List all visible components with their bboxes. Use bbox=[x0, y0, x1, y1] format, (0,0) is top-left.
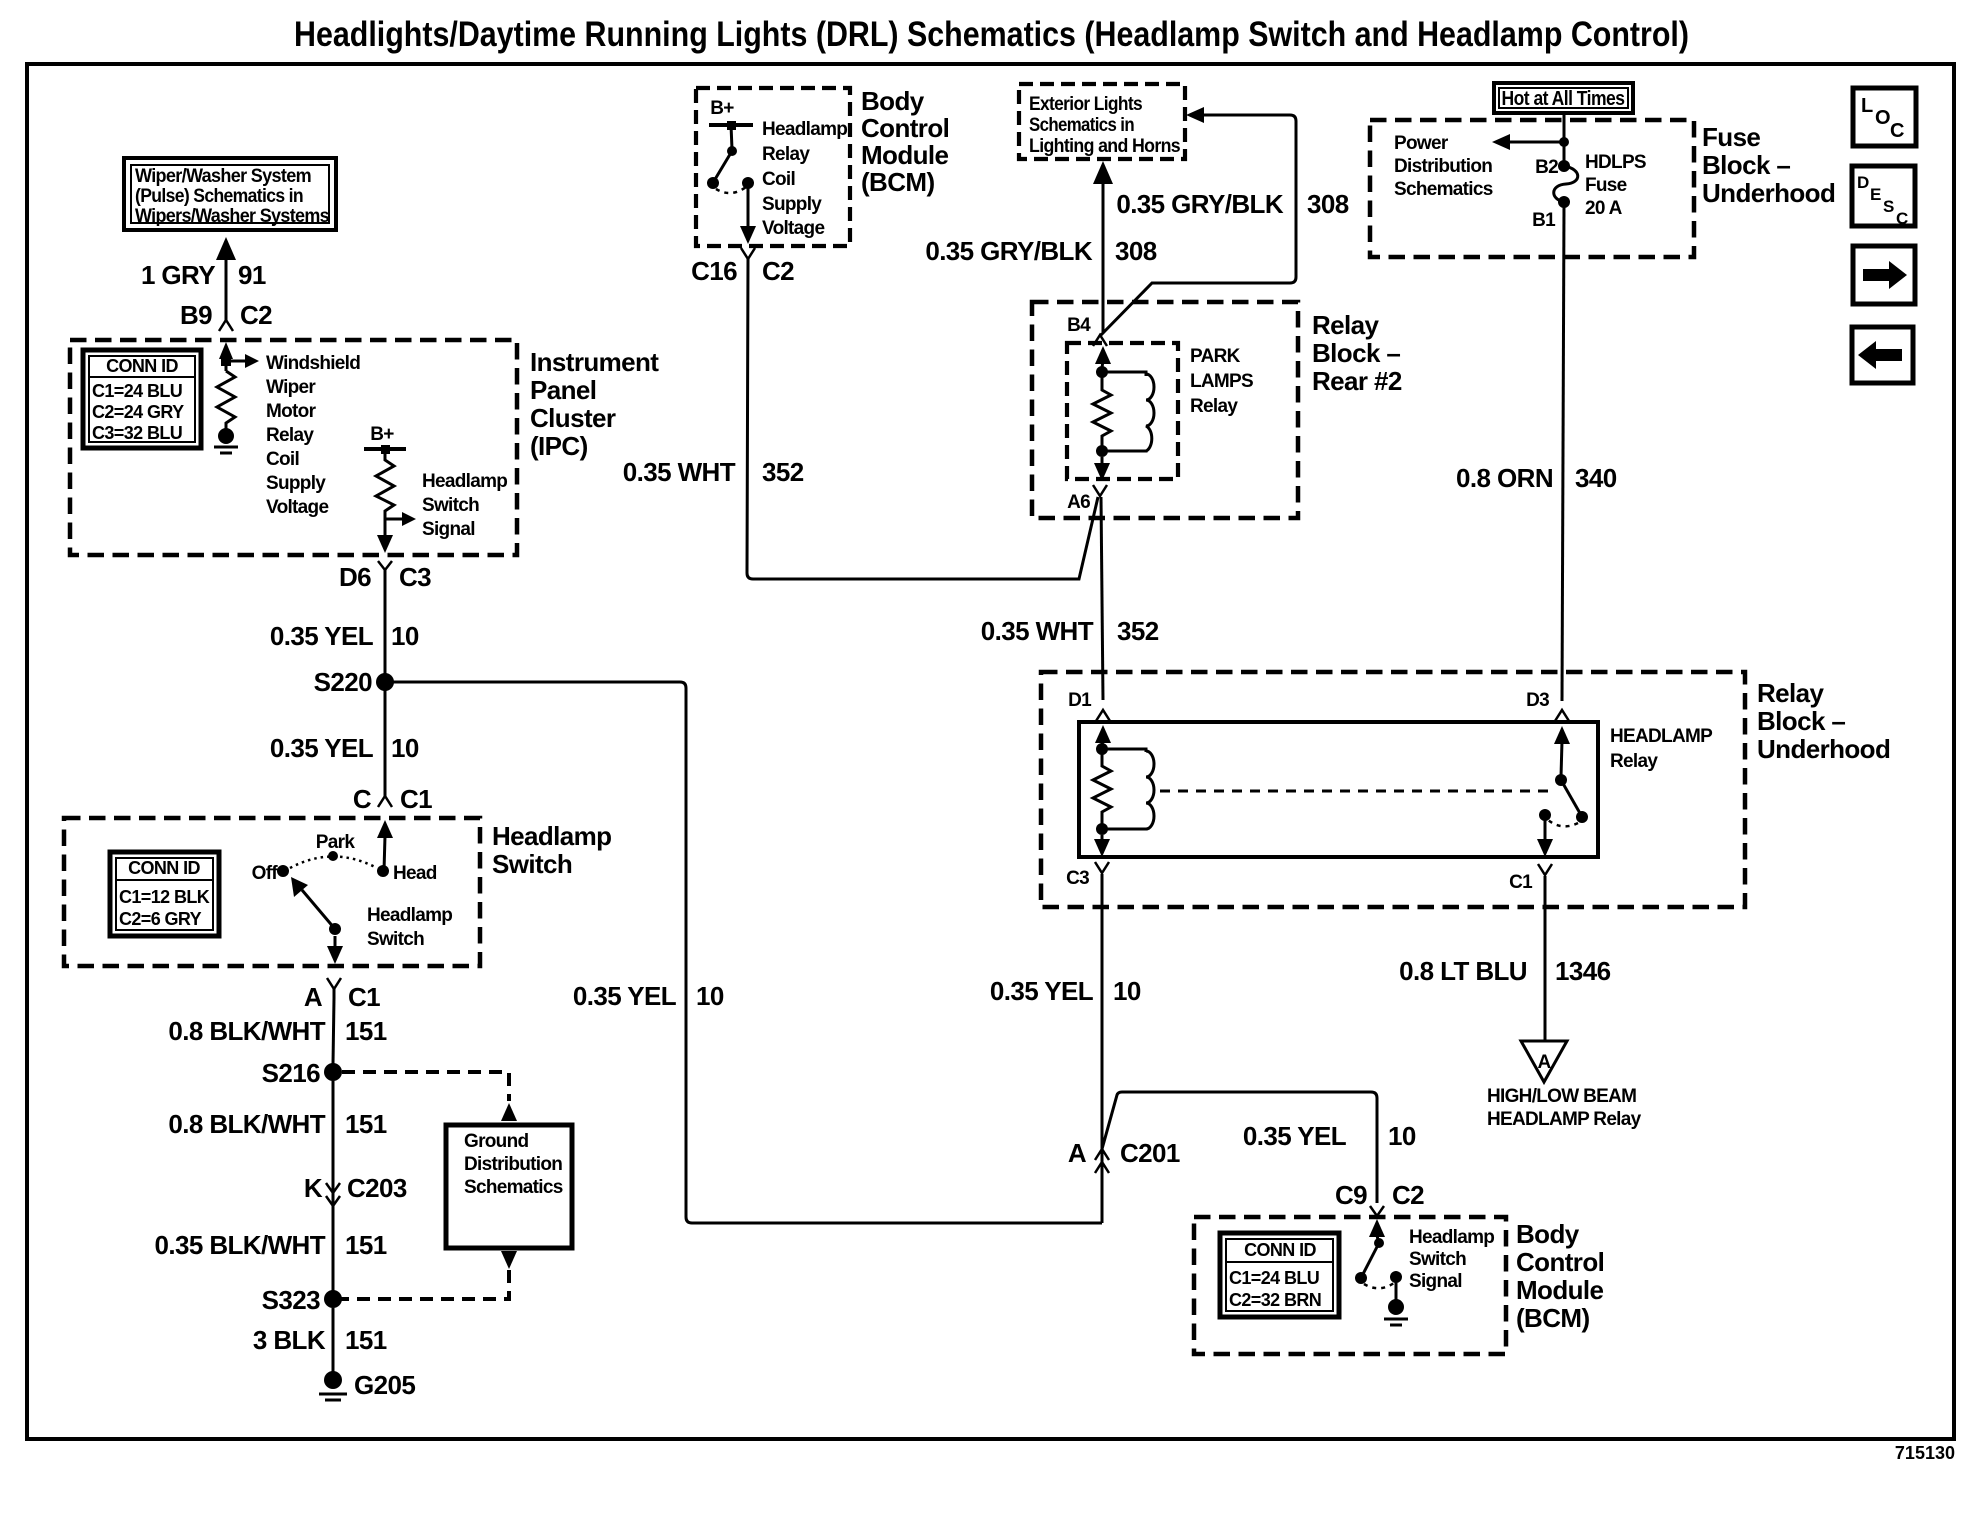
svg-text:(Pulse) Schematics in: (Pulse) Schematics in bbox=[135, 186, 303, 207]
svg-text:Coil: Coil bbox=[762, 169, 795, 190]
svg-text:Body: Body bbox=[1516, 1219, 1580, 1249]
Instrument Panel Cluster dashed box bbox=[70, 340, 517, 555]
svg-text:C16: C16 bbox=[691, 256, 737, 286]
svg-text:C1=24 BLU: C1=24 BLU bbox=[1229, 1268, 1319, 1288]
svg-text:Underhood: Underhood bbox=[1757, 734, 1890, 764]
svg-text:C1: C1 bbox=[400, 784, 432, 814]
svg-text:10: 10 bbox=[1388, 1121, 1416, 1151]
dashed wire S216 to Ground Distribution box bbox=[342, 1072, 517, 1121]
svg-text:Wiper: Wiper bbox=[266, 377, 316, 398]
svg-text:151: 151 bbox=[345, 1016, 387, 1046]
svg-text:C3: C3 bbox=[399, 562, 431, 592]
resistor headlamp switch signal (IPC) bbox=[376, 449, 416, 553]
svg-text:Power: Power bbox=[1394, 133, 1449, 154]
label 0.35 GRY/BLK 308 (upper right) bbox=[1116, 189, 1348, 219]
svg-text:Headlights/Daytime Running Lig: Headlights/Daytime Running Lights (DRL) … bbox=[294, 15, 1689, 54]
svg-text:Voltage: Voltage bbox=[762, 218, 824, 239]
svg-text:Supply: Supply bbox=[266, 473, 326, 494]
relay actuation dashed line bbox=[1160, 790, 1556, 793]
svg-text:1346: 1346 bbox=[1555, 956, 1611, 986]
park lamps relay coil assembly bbox=[1093, 346, 1154, 481]
BCM top label bbox=[861, 86, 949, 197]
svg-text:Headlamp: Headlamp bbox=[762, 119, 847, 140]
connector B4 bbox=[1067, 315, 1107, 346]
label 3 BLK 151 bbox=[253, 1325, 387, 1355]
CONN ID box (headlamp switch) bbox=[110, 852, 219, 936]
Body Control Module dashed box (bottom) bbox=[1194, 1217, 1506, 1354]
wire armature down and out of box bbox=[327, 936, 343, 964]
svg-text:CONN ID: CONN ID bbox=[128, 858, 200, 878]
svg-text:D: D bbox=[1857, 173, 1869, 192]
svg-text:Underhood: Underhood bbox=[1702, 178, 1835, 208]
svg-text:Panel: Panel bbox=[530, 375, 596, 405]
label 0.35 WHT 352 (middle) bbox=[981, 616, 1159, 646]
svg-text:B+: B+ bbox=[710, 98, 734, 119]
PARK LAMPS relay label bbox=[1190, 346, 1253, 417]
button LOC bbox=[1853, 88, 1916, 146]
svg-text:LAMPS: LAMPS bbox=[1190, 371, 1253, 392]
svg-text:Distribution: Distribution bbox=[464, 1154, 562, 1175]
label 0.35 YEL 10 (upper) bbox=[270, 621, 419, 651]
wire C16 down right and diagonal to A6 bbox=[747, 258, 1098, 579]
svg-text:308: 308 bbox=[1307, 189, 1349, 219]
svg-text:CONN ID: CONN ID bbox=[106, 356, 178, 376]
BCM bottom label bbox=[1516, 1219, 1604, 1333]
connector C16 C2 bbox=[691, 248, 794, 286]
svg-text:(BCM): (BCM) bbox=[861, 167, 935, 197]
svg-text:151: 151 bbox=[345, 1230, 387, 1260]
label 0.8 ORN 340 bbox=[1456, 463, 1617, 493]
svg-text:D1: D1 bbox=[1068, 690, 1092, 711]
svg-text:C3=32 BLU: C3=32 BLU bbox=[92, 423, 182, 443]
CONN ID box (BCM) bbox=[1220, 1233, 1339, 1317]
connector K C203 bbox=[304, 1173, 407, 1206]
arrow to Power Distribution bbox=[1492, 134, 1569, 150]
svg-text:Schematics: Schematics bbox=[1394, 179, 1493, 200]
svg-text:Headlamp: Headlamp bbox=[1409, 1227, 1494, 1248]
CONN ID box (IPC) bbox=[83, 350, 201, 448]
svg-text:Switch: Switch bbox=[1409, 1249, 1466, 1270]
label 0.8 BLK/WHT 151 (second) bbox=[168, 1109, 386, 1139]
Relay Block Underhood dashed box bbox=[1041, 672, 1745, 907]
wire from Hot at All Times down bbox=[1563, 113, 1566, 163]
svg-text:HIGH/LOW BEAM: HIGH/LOW BEAM bbox=[1487, 1086, 1636, 1107]
Fuse Block label bbox=[1702, 122, 1835, 208]
svg-text:G205: G205 bbox=[354, 1370, 415, 1400]
svg-text:0.35 YEL: 0.35 YEL bbox=[1243, 1121, 1347, 1151]
svg-text:Fuse: Fuse bbox=[1702, 122, 1760, 152]
svg-text:10: 10 bbox=[391, 733, 419, 763]
svg-text:715130: 715130 bbox=[1895, 1443, 1955, 1463]
svg-text:0.35 WHT: 0.35 WHT bbox=[623, 457, 736, 487]
BCM headlamp switch signal input bbox=[1355, 1219, 1408, 1325]
svg-text:Motor: Motor bbox=[266, 401, 317, 422]
svg-text:C9: C9 bbox=[1335, 1180, 1367, 1210]
svg-text:A: A bbox=[1068, 1138, 1087, 1168]
label 0.35 WHT 352 (left) bbox=[623, 457, 804, 487]
connector D3 bbox=[1526, 690, 1569, 721]
svg-text:Relay: Relay bbox=[266, 425, 314, 446]
svg-text:K: K bbox=[304, 1173, 323, 1203]
svg-text:C1=24 BLU: C1=24 BLU bbox=[92, 381, 182, 401]
svg-text:20 A: 20 A bbox=[1585, 198, 1623, 219]
svg-text:Switch: Switch bbox=[367, 929, 424, 950]
label Headlamp Switch Signal (IPC) bbox=[422, 471, 507, 540]
wire A6 down to D1 bbox=[1101, 497, 1103, 700]
svg-text:HDLPS: HDLPS bbox=[1585, 152, 1646, 173]
svg-text:0.35 YEL: 0.35 YEL bbox=[990, 976, 1094, 1006]
svg-text:151: 151 bbox=[345, 1109, 387, 1139]
reference box Wiper/Washer System bbox=[124, 158, 336, 230]
connector B9 C2 bbox=[180, 300, 272, 331]
wire B1 down to D3 bbox=[1562, 205, 1564, 701]
wire S216 to S323 bbox=[332, 1081, 335, 1291]
wire S323 to G205 bbox=[332, 1308, 335, 1374]
Relay Block Rear #2 dashed box bbox=[1032, 302, 1298, 518]
connector C C1 bbox=[353, 784, 432, 814]
wire C3 down to C201 bbox=[1101, 874, 1104, 1223]
svg-text:0.35 GRY/BLK: 0.35 GRY/BLK bbox=[925, 236, 1092, 266]
svg-text:Relay: Relay bbox=[1190, 396, 1238, 417]
svg-text:Hot at All Times: Hot at All Times bbox=[1502, 88, 1625, 110]
wire S220 branch right and down to C201 bbox=[392, 682, 1102, 1223]
svg-text:Relay: Relay bbox=[1312, 310, 1380, 340]
connector A6 bbox=[1067, 485, 1107, 513]
wire C1 into box with up arrow to Head bbox=[377, 820, 393, 871]
svg-text:Cluster: Cluster bbox=[530, 403, 616, 433]
svg-text:Exterior Lights: Exterior Lights bbox=[1029, 94, 1142, 115]
BCM headlamp relay driver switch bbox=[707, 125, 754, 193]
splice S323 bbox=[262, 1285, 342, 1315]
Headlamp Switch dashed box bbox=[64, 818, 480, 966]
svg-text:Relay: Relay bbox=[762, 144, 810, 165]
connector D1 bbox=[1068, 690, 1110, 721]
label 0.35 YEL 10 (to C9) bbox=[1243, 1121, 1416, 1151]
svg-text:Rear #2: Rear #2 bbox=[1312, 366, 1402, 396]
splice S216 bbox=[262, 1058, 342, 1088]
connector C9 C2 bbox=[1335, 1180, 1424, 1216]
svg-text:L: L bbox=[1861, 95, 1873, 117]
svg-text:Switch: Switch bbox=[492, 849, 572, 879]
reference box Exterior Lights dashed bbox=[1019, 84, 1185, 159]
wire to Wiper/Washer box with up arrow bbox=[216, 237, 236, 313]
reference box Ground Distribution Schematics bbox=[446, 1125, 572, 1248]
label 0.35 GRY/BLK 308 (left) bbox=[925, 236, 1156, 266]
svg-text:HEADLAMP Relay: HEADLAMP Relay bbox=[1487, 1109, 1642, 1130]
svg-text:D6: D6 bbox=[339, 562, 371, 592]
svg-text:0.8 BLK/WHT: 0.8 BLK/WHT bbox=[168, 1109, 325, 1139]
svg-text:1 GRY: 1 GRY bbox=[141, 260, 215, 290]
svg-text:Relay: Relay bbox=[1757, 678, 1825, 708]
svg-text:D3: D3 bbox=[1526, 690, 1549, 711]
svg-text:O: O bbox=[1875, 107, 1890, 129]
label Power Distribution Schematics bbox=[1394, 133, 1493, 200]
svg-text:Schematics: Schematics bbox=[464, 1177, 563, 1198]
svg-text:B2: B2 bbox=[1535, 157, 1558, 178]
svg-text:B+: B+ bbox=[370, 424, 394, 445]
svg-text:C2=24 GRY: C2=24 GRY bbox=[92, 402, 184, 422]
svg-text:B9: B9 bbox=[180, 300, 212, 330]
svg-text:C2=32 BRN: C2=32 BRN bbox=[1229, 1290, 1321, 1310]
label 0.35 YEL 10 (relay to C201) bbox=[990, 976, 1141, 1006]
label 0.8 LT BLU 1346 bbox=[1399, 956, 1610, 986]
svg-text:308: 308 bbox=[1115, 236, 1157, 266]
svg-text:A6: A6 bbox=[1067, 492, 1090, 513]
circuit reference triangle A bbox=[1521, 1041, 1567, 1082]
svg-text:3 BLK: 3 BLK bbox=[253, 1325, 326, 1355]
svg-text:91: 91 bbox=[238, 260, 266, 290]
svg-text:Body: Body bbox=[861, 86, 925, 116]
svg-text:0.8 BLK/WHT: 0.8 BLK/WHT bbox=[168, 1016, 325, 1046]
Relay Block Rear #2 label bbox=[1312, 310, 1402, 396]
svg-text:C201: C201 bbox=[1120, 1138, 1180, 1168]
svg-text:352: 352 bbox=[1117, 616, 1159, 646]
connector D6 C3 bbox=[339, 561, 431, 592]
svg-text:Wipers/Washer Systems: Wipers/Washer Systems bbox=[135, 206, 329, 227]
svg-text:Control: Control bbox=[1516, 1247, 1604, 1277]
svg-text:0.35 GRY/BLK: 0.35 GRY/BLK bbox=[1116, 189, 1283, 219]
connector C1 (relay block) bbox=[1509, 864, 1552, 893]
svg-text:B1: B1 bbox=[1532, 210, 1556, 231]
label Headlamp Switch Signal (BCM) bbox=[1409, 1227, 1494, 1292]
svg-text:151: 151 bbox=[345, 1325, 387, 1355]
HEADLAMP Relay label bbox=[1610, 726, 1713, 772]
svg-text:Off: Off bbox=[252, 863, 279, 884]
wire BCM out to C16 with down arrow bbox=[740, 183, 756, 244]
svg-text:0.35 YEL: 0.35 YEL bbox=[573, 981, 677, 1011]
svg-text:0.8 LT BLU: 0.8 LT BLU bbox=[1399, 956, 1527, 986]
wire D6 to S220 bbox=[384, 569, 387, 674]
svg-text:Relay: Relay bbox=[1610, 751, 1658, 772]
svg-text:C1=12 BLK: C1=12 BLK bbox=[119, 887, 210, 907]
svg-text:C: C bbox=[353, 784, 372, 814]
button arrow right bbox=[1853, 246, 1915, 304]
label 0.8 BLK/WHT 151 (first) bbox=[168, 1016, 386, 1046]
reference box Hot at All Times bbox=[1494, 83, 1633, 113]
svg-text:Schematics in: Schematics in bbox=[1029, 115, 1134, 136]
svg-text:C3: C3 bbox=[1066, 868, 1089, 889]
connector A C1 (headlamp switch) bbox=[304, 978, 380, 1012]
fuse HDLPS 20A bbox=[1532, 157, 1578, 231]
svg-text:Instrument: Instrument bbox=[530, 347, 659, 377]
svg-text:10: 10 bbox=[1113, 976, 1141, 1006]
svg-text:Head: Head bbox=[393, 863, 437, 884]
Headlamp Switch outside label bbox=[492, 821, 611, 879]
svg-text:CONN ID: CONN ID bbox=[1244, 1240, 1316, 1260]
Fuse Block Underhood dashed box bbox=[1370, 120, 1694, 257]
svg-text:Block –: Block – bbox=[1757, 706, 1845, 736]
svg-text:Wiper/Washer System: Wiper/Washer System bbox=[135, 166, 311, 187]
svg-text:(IPC): (IPC) bbox=[530, 431, 588, 461]
svg-text:Headlamp: Headlamp bbox=[367, 905, 452, 926]
svg-text:0.35 YEL: 0.35 YEL bbox=[270, 733, 374, 763]
svg-text:A: A bbox=[1537, 1052, 1551, 1073]
svg-text:C203: C203 bbox=[347, 1173, 407, 1203]
svg-text:PARK: PARK bbox=[1190, 346, 1241, 367]
svg-text:(BCM): (BCM) bbox=[1516, 1303, 1590, 1333]
label Windshield Wiper Motor Relay Coil Supply Voltage bbox=[266, 353, 360, 518]
label HIGH/LOW BEAM HEADLAMP Relay bbox=[1487, 1086, 1642, 1130]
svg-text:Signal: Signal bbox=[422, 519, 475, 540]
svg-text:C1: C1 bbox=[1509, 872, 1533, 893]
label 0.35 YEL 10 (lower) bbox=[270, 733, 419, 763]
headlamp switch armature bbox=[291, 877, 341, 935]
svg-text:Signal: Signal bbox=[1409, 1271, 1462, 1292]
svg-text:S220: S220 bbox=[314, 667, 372, 697]
headlamp relay coil assembly bbox=[1093, 725, 1154, 857]
svg-text:Fuse: Fuse bbox=[1585, 175, 1627, 196]
label 0.35 BLK/WHT 151 bbox=[155, 1230, 387, 1260]
svg-text:Ground: Ground bbox=[464, 1131, 528, 1152]
svg-text:352: 352 bbox=[762, 457, 804, 487]
svg-text:C: C bbox=[1896, 209, 1908, 228]
wire A to S216 bbox=[333, 998, 334, 1064]
svg-text:0.8 ORN: 0.8 ORN bbox=[1456, 463, 1553, 493]
svg-text:Module: Module bbox=[1516, 1275, 1604, 1305]
svg-text:Headlamp: Headlamp bbox=[422, 471, 507, 492]
svg-text:Module: Module bbox=[861, 140, 949, 170]
wire S220 down to C bbox=[384, 690, 387, 790]
svg-text:C2: C2 bbox=[762, 256, 794, 286]
svg-text:10: 10 bbox=[696, 981, 724, 1011]
button DESC bbox=[1852, 166, 1915, 228]
svg-text:Block –: Block – bbox=[1702, 150, 1790, 180]
headlamp switch internal label bbox=[367, 905, 452, 950]
PARK LAMPS relay dashed box bbox=[1067, 343, 1178, 479]
svg-text:Coil: Coil bbox=[266, 449, 299, 470]
svg-text:10: 10 bbox=[391, 621, 419, 651]
HEADLAMP relay solid box bbox=[1079, 722, 1598, 857]
svg-text:A: A bbox=[304, 982, 323, 1012]
svg-text:HEADLAMP: HEADLAMP bbox=[1610, 726, 1713, 747]
svg-text:0.35 WHT: 0.35 WHT bbox=[981, 616, 1094, 646]
svg-text:Distribution: Distribution bbox=[1394, 156, 1492, 177]
svg-text:Block –: Block – bbox=[1312, 338, 1400, 368]
button arrow left bbox=[1852, 327, 1913, 383]
ground G205 bbox=[319, 1370, 415, 1400]
headlamp switch contacts Off Park Head bbox=[252, 832, 437, 884]
svg-text:Park: Park bbox=[316, 832, 356, 853]
label Headlamp Relay Coil Supply Voltage (BCM) bbox=[762, 119, 847, 239]
svg-text:Supply: Supply bbox=[762, 194, 822, 215]
svg-text:0.35 YEL: 0.35 YEL bbox=[270, 621, 374, 651]
svg-text:C: C bbox=[1890, 120, 1904, 142]
svg-text:Headlamp: Headlamp bbox=[492, 821, 611, 851]
node B+ (BCM) bbox=[709, 98, 753, 130]
headlamp relay switch bbox=[1537, 726, 1588, 857]
svg-text:Switch: Switch bbox=[422, 495, 479, 516]
Relay Block Underhood label bbox=[1757, 678, 1890, 764]
label 0.35 YEL 10 (S220 branch) bbox=[573, 981, 724, 1011]
svg-text:C2: C2 bbox=[1392, 1180, 1424, 1210]
svg-text:Lighting and Horns: Lighting and Horns bbox=[1029, 136, 1180, 157]
connector C3 bbox=[1066, 862, 1109, 889]
svg-text:C2: C2 bbox=[240, 300, 272, 330]
label HDLPS Fuse 20 A bbox=[1585, 152, 1646, 219]
IPC label bbox=[530, 347, 659, 461]
wire from Exterior Lights box right via elbow to B4 bbox=[1101, 107, 1296, 335]
svg-text:340: 340 bbox=[1575, 463, 1617, 493]
svg-text:E: E bbox=[1870, 185, 1881, 204]
wire C1 down to high/low beam triangle bbox=[1544, 876, 1547, 1040]
svg-text:S: S bbox=[1883, 197, 1894, 216]
label 1 GRY 91 bbox=[141, 260, 266, 290]
wire C201 up elbow to C9 bbox=[1102, 1092, 1377, 1203]
svg-text:S323: S323 bbox=[262, 1285, 320, 1315]
svg-text:Control: Control bbox=[861, 113, 949, 143]
svg-text:C2=6 GRY: C2=6 GRY bbox=[119, 909, 202, 929]
svg-text:Windshield: Windshield bbox=[266, 353, 360, 374]
Body Control Module dashed box (top) bbox=[696, 88, 850, 246]
svg-text:B4: B4 bbox=[1067, 315, 1091, 336]
wire B4 up into Exterior Lights box bbox=[1093, 161, 1113, 332]
resistor wiper motor relay coil (IPC) bbox=[214, 342, 259, 453]
svg-text:Voltage: Voltage bbox=[266, 497, 328, 518]
node B+ (IPC headlamp switch signal) bbox=[364, 424, 406, 454]
svg-text:C1: C1 bbox=[348, 982, 380, 1012]
dashed wire Ground Distribution box to S323 bbox=[340, 1251, 517, 1299]
svg-text:S216: S216 bbox=[262, 1058, 320, 1088]
svg-text:0.35 BLK/WHT: 0.35 BLK/WHT bbox=[155, 1230, 326, 1260]
splice S220 bbox=[314, 667, 394, 697]
connector A C201 bbox=[1068, 1138, 1180, 1173]
